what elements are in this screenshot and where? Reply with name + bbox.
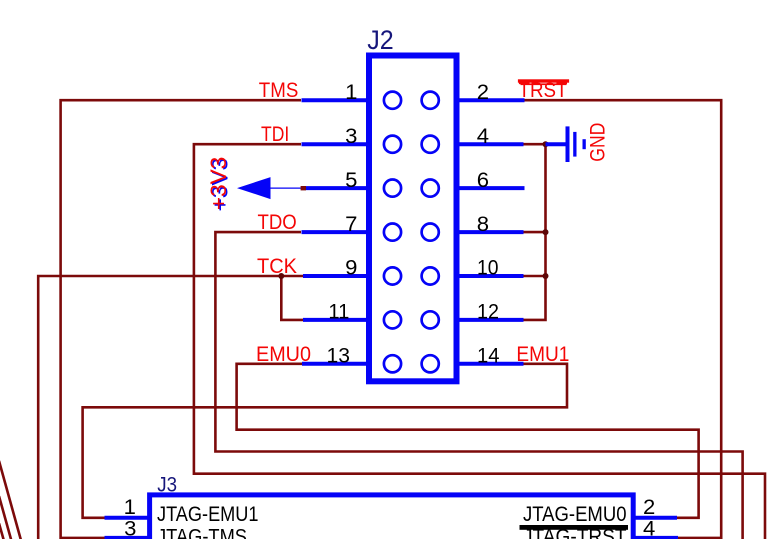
svg-text:10: 10 (477, 257, 499, 280)
svg-text:GND: GND (587, 123, 610, 162)
pin circle row3 right (422, 180, 439, 197)
wire TCK branch to pin11 (281, 276, 303, 320)
J3 pin 3 stub (105, 536, 150, 539)
svg-text:1: 1 (124, 496, 136, 519)
svg-text:3: 3 (345, 125, 357, 148)
svg-text:JTAG-EMU1: JTAG-EMU1 (157, 503, 259, 526)
svg-text:+3V3: +3V3 (206, 157, 231, 211)
svg-text:J2: J2 (367, 25, 394, 55)
wire TMS net: pin1 to J3 pin3 (61, 100, 301, 538)
svg-text:9: 9 (345, 257, 357, 280)
wire TRST net: pin2 to J3 pin4 (523, 100, 721, 538)
svg-text:5: 5 (345, 169, 357, 192)
junction GND pin10 (543, 273, 549, 279)
wire TDO net: pin7 down and right off bottom (215, 232, 742, 539)
junction GND pin4 (543, 141, 549, 147)
svg-text:4: 4 (643, 518, 656, 539)
pin 2 stub (457, 98, 525, 102)
pin circle row5 left (384, 267, 401, 284)
connector J3 body (150, 495, 634, 539)
svg-text:EMU1: EMU1 (516, 343, 569, 366)
power symbol +3V3 thin lead (271, 187, 307, 189)
pin 14 stub (457, 362, 524, 366)
svg-text:12: 12 (477, 301, 499, 324)
net label TRST overline thin (521, 83, 567, 85)
ground symbol bar 3 (583, 139, 586, 149)
pin circle row6 right (422, 311, 439, 328)
pin circle row1 left (384, 92, 401, 109)
svg-text:JTAG-EMU0: JTAG-EMU0 (523, 503, 627, 526)
svg-text:1: 1 (345, 81, 357, 104)
pin circle row6 left (384, 311, 401, 328)
wire diagonal bus line 2 bottom-left (0, 496, 12, 539)
svg-text:TDO: TDO (258, 211, 297, 234)
pin 13 stub (302, 362, 369, 366)
pin circle row4 right (422, 224, 439, 241)
svg-text:7: 7 (345, 213, 357, 236)
svg-text:2: 2 (643, 496, 655, 519)
pin 4 stub (457, 142, 524, 146)
pin 1 stub (302, 98, 370, 102)
svg-text:TCK: TCK (257, 255, 297, 278)
pin circle row1 right (422, 92, 439, 109)
svg-text:EMU0: EMU0 (256, 343, 311, 366)
pin circle row7 right (422, 355, 439, 372)
svg-text:13: 13 (327, 345, 351, 368)
J3 pin 1 stub (105, 516, 150, 520)
svg-text:8: 8 (477, 213, 489, 236)
pin 11 stub (303, 318, 369, 322)
power symbol +3V3 arrow (237, 177, 271, 199)
pin 12 stub (457, 318, 524, 322)
svg-text:TMS: TMS (259, 79, 299, 102)
wire GND stub pin10 (523, 275, 546, 278)
connector J2 body (369, 56, 457, 382)
junction GND pin8 (543, 229, 549, 235)
pin circle row2 left (384, 136, 401, 153)
pin circle row2 right (422, 136, 439, 153)
pin 5 stub (306, 186, 369, 190)
ground symbol lead (546, 142, 566, 146)
wire TDI net: pin3 down and right off bottom (194, 144, 765, 539)
wire GND net vertical bus pins 4,8,10,12 (523, 144, 546, 320)
pin circle row5 right (422, 267, 439, 284)
svg-text:14: 14 (477, 345, 500, 368)
junction TCK (278, 273, 284, 279)
pin 10 stub (457, 274, 524, 278)
ground symbol bar 2 (573, 132, 576, 157)
svg-text:2: 2 (477, 81, 489, 104)
wire EMU0 net: pin13 to J3 pin2 (237, 364, 699, 518)
pin 8 stub (457, 230, 524, 234)
J3 pin name JTAG-TRST overline (520, 525, 629, 530)
net label TRST overline thick (518, 79, 569, 82)
J3 pin 2 stub (633, 516, 677, 520)
pin 9 stub (303, 274, 369, 278)
pin 6 stub (457, 186, 525, 190)
pin circle row3 left (384, 180, 401, 197)
wire EMU1 net: pin14 to J3 pin1 (83, 364, 567, 518)
wire TCK net: pin9 left then down off bottom (38, 276, 303, 539)
pin 7 stub (302, 230, 370, 234)
svg-text:4: 4 (477, 125, 490, 148)
svg-text:J3: J3 (157, 473, 177, 497)
svg-text:TDI: TDI (261, 123, 289, 146)
ground symbol bar 1 (566, 126, 570, 162)
wire diagonal bus line 3 bottom-left (0, 523, 4, 539)
wire GND stub pin8 (523, 231, 546, 234)
wire diagonal bus line 1 bottom-left (0, 461, 21, 539)
svg-text:3: 3 (124, 518, 136, 539)
J3 pin 4 stub (633, 536, 678, 539)
svg-text:6: 6 (477, 169, 489, 192)
pin circle row4 left (384, 224, 401, 241)
pin 3 stub (302, 142, 370, 146)
wire endpoint marker pin5 (301, 186, 306, 190)
pin circle row7 left (384, 355, 401, 372)
svg-text:JTAG-TMS: JTAG-TMS (157, 525, 247, 539)
svg-text:11: 11 (328, 301, 349, 324)
